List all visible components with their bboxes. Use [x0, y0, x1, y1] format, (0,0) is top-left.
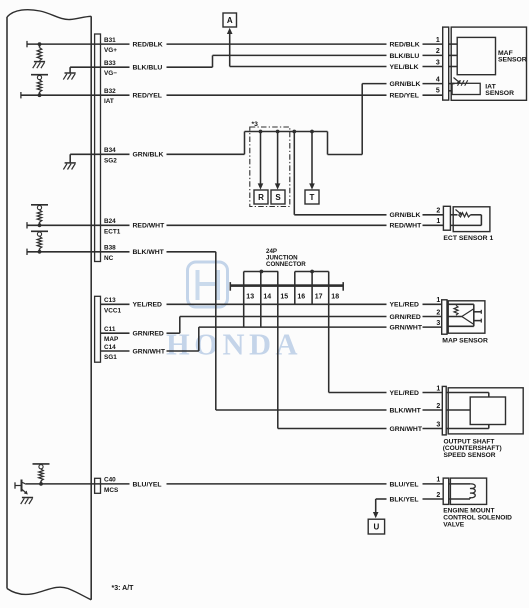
- svg-text:ECT1: ECT1: [104, 228, 121, 235]
- svg-text:GRN/BLK: GRN/BLK: [390, 212, 421, 219]
- svg-text:C13: C13: [104, 297, 116, 304]
- svg-text:GRN/WHT: GRN/WHT: [390, 426, 423, 433]
- svg-text:SG2: SG2: [104, 157, 117, 164]
- svg-text:2: 2: [436, 492, 440, 499]
- svg-text:BLK/BLU: BLK/BLU: [133, 65, 163, 72]
- svg-text:2: 2: [436, 48, 440, 55]
- svg-text:17: 17: [315, 293, 323, 300]
- svg-text:RED/WHT: RED/WHT: [390, 223, 423, 230]
- svg-text:R: R: [258, 193, 264, 202]
- svg-text:RED/BLK: RED/BLK: [133, 42, 163, 49]
- svg-text:GRN/BLK: GRN/BLK: [390, 81, 421, 88]
- svg-text:RED/YEL: RED/YEL: [133, 93, 162, 100]
- svg-text:YEL/BLK: YEL/BLK: [390, 64, 419, 71]
- svg-text:1: 1: [436, 37, 440, 44]
- svg-text:13: 13: [246, 293, 254, 300]
- svg-text:BLK/BLU: BLK/BLU: [390, 53, 420, 60]
- svg-text:*3: *3: [252, 121, 259, 128]
- svg-text:C40: C40: [104, 477, 116, 484]
- svg-text:5: 5: [436, 87, 440, 94]
- svg-text:CONNECTOR: CONNECTOR: [266, 261, 306, 268]
- svg-text:BLK/WHT: BLK/WHT: [390, 407, 422, 414]
- svg-text:YEL/RED: YEL/RED: [390, 390, 420, 397]
- svg-text:YEL/RED: YEL/RED: [390, 302, 420, 309]
- svg-text:MAP SENSOR: MAP SENSOR: [442, 337, 488, 344]
- svg-text:14: 14: [263, 293, 271, 300]
- svg-text:C14: C14: [104, 344, 116, 351]
- svg-text:GRN/RED: GRN/RED: [133, 331, 164, 338]
- svg-text:GRN/WHT: GRN/WHT: [133, 348, 166, 355]
- svg-text:3: 3: [436, 59, 440, 66]
- svg-text:SG1: SG1: [104, 354, 117, 361]
- svg-text:A: A: [227, 16, 233, 25]
- svg-text:*3: A/T: *3: A/T: [112, 585, 135, 592]
- svg-text:B38: B38: [104, 245, 116, 252]
- svg-text:1: 1: [436, 385, 440, 392]
- svg-text:GRN/BLK: GRN/BLK: [133, 152, 164, 159]
- svg-text:2: 2: [436, 208, 440, 215]
- svg-text:B31: B31: [104, 37, 116, 44]
- svg-text:1: 1: [436, 477, 440, 484]
- svg-text:B32: B32: [104, 88, 116, 95]
- svg-text:SENSOR: SENSOR: [485, 90, 514, 97]
- svg-text:B33: B33: [104, 60, 116, 67]
- svg-text:NC: NC: [104, 255, 114, 262]
- svg-text:BLU/YEL: BLU/YEL: [133, 481, 162, 488]
- svg-text:BLU/YEL: BLU/YEL: [390, 481, 419, 488]
- svg-text:RED/WHT: RED/WHT: [133, 223, 166, 230]
- svg-text:U: U: [374, 522, 380, 531]
- svg-text:T: T: [310, 193, 315, 202]
- svg-text:B24: B24: [104, 218, 116, 225]
- svg-text:RED/BLK: RED/BLK: [390, 42, 420, 49]
- svg-text:RED/YEL: RED/YEL: [390, 93, 419, 100]
- svg-text:SPEED SENSOR: SPEED SENSOR: [444, 452, 496, 459]
- svg-text:2: 2: [436, 309, 440, 316]
- svg-text:16: 16: [297, 293, 305, 300]
- svg-text:SENSOR: SENSOR: [498, 56, 527, 63]
- svg-text:C11: C11: [104, 326, 116, 333]
- svg-text:1: 1: [436, 297, 440, 304]
- svg-text:VCC1: VCC1: [104, 307, 121, 314]
- svg-text:4: 4: [436, 76, 440, 83]
- svg-text:BLK/WHT: BLK/WHT: [133, 249, 165, 256]
- svg-text:2: 2: [436, 403, 440, 410]
- svg-text:GRN/RED: GRN/RED: [390, 314, 421, 321]
- svg-text:B34: B34: [104, 147, 116, 154]
- svg-text:3: 3: [436, 320, 440, 327]
- svg-text:18: 18: [331, 293, 339, 300]
- svg-text:VALVE: VALVE: [443, 521, 465, 528]
- svg-text:HONDA: HONDA: [166, 328, 302, 362]
- svg-text:VG+: VG+: [104, 47, 117, 54]
- svg-text:S: S: [275, 193, 281, 202]
- svg-text:YEL/RED: YEL/RED: [133, 302, 163, 309]
- svg-text:ECT SENSOR 1: ECT SENSOR 1: [443, 235, 493, 242]
- svg-text:IAT: IAT: [104, 98, 114, 105]
- svg-text:VG−: VG−: [104, 70, 117, 77]
- svg-text:MAP: MAP: [104, 336, 119, 343]
- svg-text:GRN/WHT: GRN/WHT: [390, 325, 423, 332]
- svg-text:15: 15: [280, 293, 288, 300]
- svg-text:MCS: MCS: [104, 487, 119, 494]
- svg-text:BLK/YEL: BLK/YEL: [390, 496, 419, 503]
- svg-text:1: 1: [436, 218, 440, 225]
- svg-text:3: 3: [436, 421, 440, 428]
